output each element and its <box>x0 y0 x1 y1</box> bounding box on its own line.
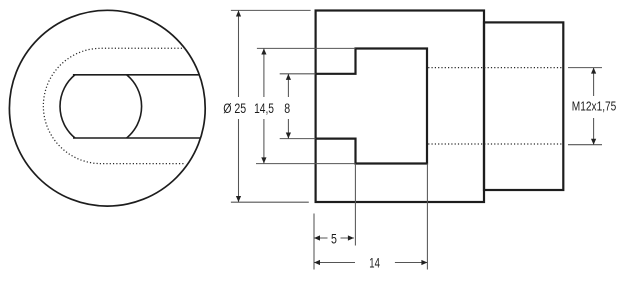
slot opening top edge <box>73 74 200 76</box>
dimension Ø25 arrow down <box>236 196 241 202</box>
dimension 14 arrow right <box>421 260 427 265</box>
dimension 8 line <box>287 74 289 139</box>
dimension Ø25 arrow up <box>236 11 241 17</box>
dimension M12x1,75 extension line bottom <box>568 144 602 146</box>
dimension M12x1,75 line <box>593 68 595 145</box>
svg-text:M12x1,75: M12x1,75 <box>572 99 617 113</box>
dimension 14,5 arrow up <box>261 49 266 55</box>
svg-text:5: 5 <box>331 232 337 247</box>
thread hole hidden line top <box>428 67 563 69</box>
T-slot profile <box>316 49 427 164</box>
dimension 14 right extension line <box>426 164 428 270</box>
dimension Ø25 extension line top <box>231 9 311 11</box>
svg-text:14,5: 14,5 <box>254 101 274 116</box>
dimension Ø25 extension line bottom <box>231 201 309 203</box>
dimension 5 arrow left <box>314 235 320 240</box>
dimension 8 arrow up <box>286 74 291 80</box>
dimension M12x1,75 arrow up <box>591 68 596 74</box>
dimension 14 line <box>314 262 427 264</box>
svg-text:14: 14 <box>369 256 380 271</box>
svg-text:Ø 25: Ø 25 <box>223 101 246 116</box>
hidden T-slot dotted stadium <box>43 48 185 163</box>
dimension 5 arrow right <box>348 235 354 240</box>
dimension 5 line <box>314 237 354 239</box>
dimension 14,5 extension line bottom <box>256 163 356 165</box>
dimension 5 right extension line <box>354 164 356 246</box>
tap hole right arc <box>127 75 142 138</box>
side view main body outline <box>316 11 484 203</box>
dimension M12x1,75 arrow down <box>591 139 596 145</box>
svg-text:8: 8 <box>284 101 290 116</box>
thread hole hidden line bottom <box>428 143 563 145</box>
dimension 8 arrow down <box>286 133 291 139</box>
dimension 5 and 14 left extension line <box>313 214 315 270</box>
dimension Ø25 line <box>238 11 240 203</box>
dimension 14 arrow left <box>314 260 320 265</box>
slot opening bottom edge <box>73 137 201 139</box>
dimension M12x1,75 extension line top <box>568 67 602 69</box>
dimension 14,5 extension line top <box>257 47 356 49</box>
side view threaded boss outline <box>484 22 563 190</box>
dimension 14,5 arrow down <box>261 157 266 163</box>
dimension 8 extension line bottom <box>280 138 316 140</box>
front view outer circle Ø25 <box>9 10 205 206</box>
dimension 14,5 line <box>263 49 265 164</box>
tap hole left arc <box>60 75 75 138</box>
dimension 8 extension line top <box>280 73 316 75</box>
